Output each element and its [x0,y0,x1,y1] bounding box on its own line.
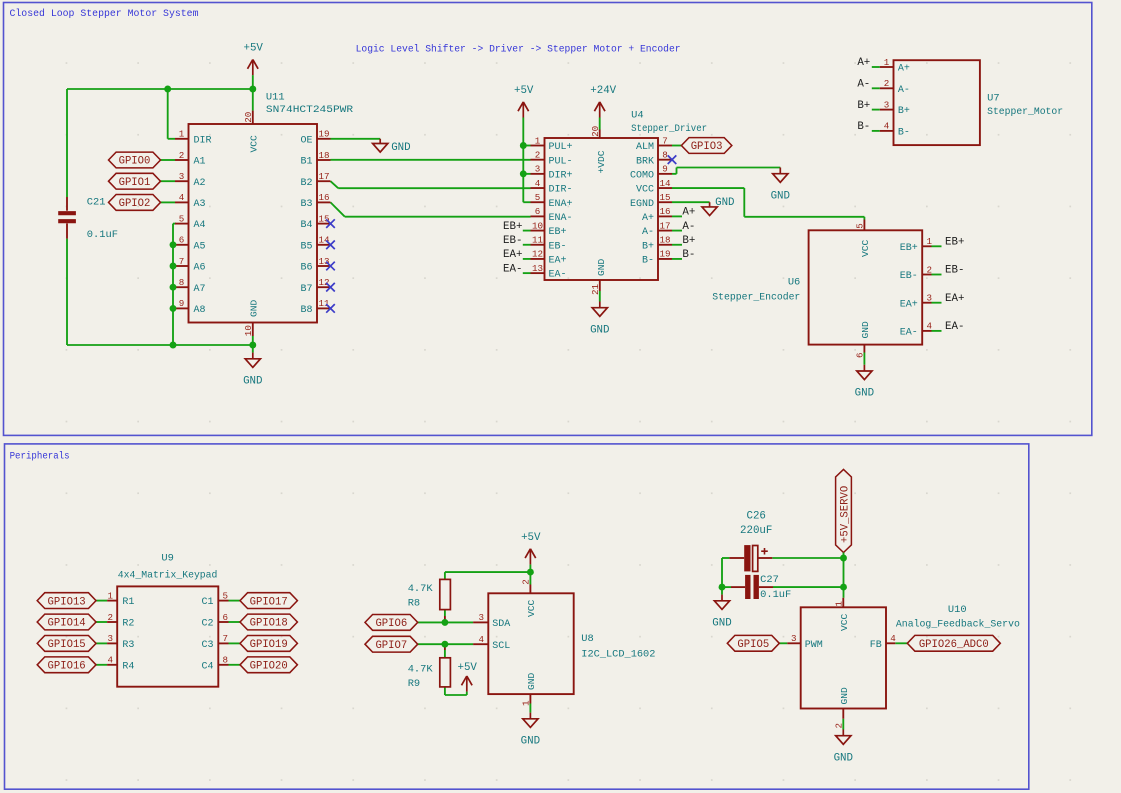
svg-text:GPIO5: GPIO5 [737,639,769,651]
svg-text:18: 18 [318,150,329,161]
svg-text:B-: B- [898,128,910,139]
svg-text:EB+: EB+ [945,237,964,249]
svg-text:A8: A8 [194,305,206,316]
svg-text:A5: A5 [194,241,206,252]
svg-text:7: 7 [662,135,668,146]
svg-text:DIR+: DIR+ [549,170,573,181]
svg-text:U10: U10 [948,604,967,616]
svg-text:GPIO26_ADC0: GPIO26_ADC0 [919,639,989,651]
svg-text:3: 3 [179,171,185,182]
svg-text:1: 1 [884,57,890,68]
svg-text:+5V: +5V [457,662,477,674]
svg-text:16: 16 [318,192,329,203]
svg-text:GPIO14: GPIO14 [48,618,86,630]
svg-text:4: 4 [890,633,896,644]
svg-text:4.7K: 4.7K [408,583,434,595]
svg-text:0.1uF: 0.1uF [760,589,791,601]
svg-text:SCL: SCL [492,641,510,652]
svg-text:GPIO2: GPIO2 [119,198,151,210]
svg-text:20: 20 [243,112,254,123]
svg-text:BRK: BRK [636,156,654,167]
svg-text:GND: GND [712,617,731,629]
svg-text:ENA-: ENA- [549,213,573,224]
svg-text:GND: GND [590,324,609,336]
svg-text:12: 12 [318,277,329,288]
svg-text:R1: R1 [122,597,134,608]
svg-text:GND: GND [771,190,790,202]
svg-text:5: 5 [855,223,866,229]
svg-text:13: 13 [532,263,543,274]
svg-text:EA+: EA+ [900,299,918,310]
svg-text:20: 20 [590,126,601,137]
svg-text:16: 16 [659,206,670,217]
svg-text:3: 3 [791,633,797,644]
svg-text:EA+: EA+ [945,293,964,305]
svg-text:14: 14 [659,178,671,189]
svg-text:GND: GND [526,672,537,690]
svg-text:EB+: EB+ [900,243,918,254]
svg-text:21: 21 [590,283,601,295]
svg-text:B+: B+ [642,241,654,252]
svg-text:C2: C2 [201,619,213,630]
svg-text:DIR: DIR [194,135,212,146]
svg-text:COMO: COMO [630,170,654,181]
svg-text:+VDC: +VDC [596,150,607,173]
svg-text:2: 2 [834,723,845,729]
svg-text:EA-: EA- [945,321,964,333]
svg-text:3: 3 [535,164,541,175]
svg-text:5: 5 [179,213,185,224]
svg-text:1: 1 [535,135,541,146]
svg-text:GPIO13: GPIO13 [48,596,86,608]
svg-text:C3: C3 [201,640,213,651]
svg-text:GND: GND [249,299,260,317]
svg-text:8: 8 [179,277,185,288]
svg-text:U4: U4 [631,110,643,122]
svg-text:1: 1 [521,700,532,706]
svg-text:19: 19 [318,129,329,140]
svg-text:14: 14 [318,235,330,246]
svg-text:B1: B1 [300,157,312,168]
svg-text:U7: U7 [987,93,999,105]
svg-text:A+: A+ [857,57,870,69]
svg-text:7: 7 [223,633,229,644]
svg-text:4.7K: 4.7K [408,663,434,675]
svg-text:C1: C1 [201,597,213,608]
svg-text:VCC: VCC [526,599,537,617]
svg-text:3: 3 [884,99,890,110]
svg-text:Analog_Feedback_Servo: Analog_Feedback_Servo [896,619,1020,631]
svg-text:A4: A4 [194,220,206,231]
svg-text:GPIO16: GPIO16 [48,661,86,673]
svg-text:Closed Loop Stepper Motor Syst: Closed Loop Stepper Motor System [10,8,199,19]
svg-text:U6: U6 [788,277,800,289]
svg-text:A1: A1 [194,157,206,168]
svg-text:A3: A3 [194,199,206,210]
svg-text:GPIO3: GPIO3 [691,141,723,153]
svg-text:17: 17 [659,220,670,231]
svg-text:Stepper_Encoder: Stepper_Encoder [712,292,800,304]
svg-text:GND: GND [521,735,540,747]
svg-text:2: 2 [535,149,541,160]
svg-text:R4: R4 [122,661,134,672]
svg-text:Stepper_Driver: Stepper_Driver [631,123,707,135]
svg-text:ENA+: ENA+ [549,199,573,210]
svg-text:B3: B3 [300,199,312,210]
svg-text:4: 4 [926,321,932,332]
svg-text:8: 8 [223,655,229,666]
svg-text:EA-: EA- [549,270,567,281]
svg-text:19: 19 [659,249,670,260]
svg-text:C26: C26 [746,511,765,523]
svg-text:1: 1 [834,601,845,607]
svg-text:GPIO18: GPIO18 [250,618,288,630]
svg-text:A+: A+ [898,64,910,75]
svg-text:15: 15 [659,192,670,203]
svg-text:EA+: EA+ [503,249,522,261]
svg-text:FB: FB [870,640,882,651]
svg-text:R3: R3 [122,640,134,651]
svg-text:3: 3 [479,612,485,623]
svg-text:3: 3 [107,633,113,644]
svg-text:EA-: EA- [900,328,918,339]
svg-text:10: 10 [532,220,543,231]
svg-text:GPIO17: GPIO17 [250,596,288,608]
svg-text:EA-: EA- [503,263,522,275]
svg-text:+5V: +5V [243,43,263,55]
svg-text:Logic Level Shifter -> Driver: Logic Level Shifter -> Driver -> Stepper… [356,44,681,55]
svg-text:DIR-: DIR- [549,185,573,196]
svg-text:A-: A- [898,85,910,96]
svg-text:1: 1 [179,129,185,140]
svg-text:GPIO7: GPIO7 [375,640,407,652]
svg-text:R2: R2 [122,619,134,630]
svg-text:U9: U9 [161,553,173,565]
svg-text:B4: B4 [300,220,312,231]
svg-text:B+: B+ [857,100,870,112]
svg-text:B-: B- [682,249,695,261]
svg-text:A+: A+ [642,213,654,224]
svg-text:+5V: +5V [521,532,541,544]
svg-text:2: 2 [179,150,185,161]
svg-text:+5V_SERVO: +5V_SERVO [839,486,851,543]
svg-text:A7: A7 [194,284,206,295]
svg-text:EB-: EB- [945,265,964,277]
svg-text:4: 4 [107,655,113,666]
svg-text:15: 15 [318,213,329,224]
svg-text:GPIO15: GPIO15 [48,639,86,651]
svg-text:2: 2 [884,78,890,89]
svg-text:3: 3 [926,293,932,304]
svg-text:4x4_Matrix_Keypad: 4x4_Matrix_Keypad [118,569,218,581]
svg-text:11: 11 [532,235,544,246]
svg-text:SDA: SDA [492,619,510,630]
svg-text:2: 2 [521,579,532,585]
svg-text:GPIO20: GPIO20 [250,661,288,673]
svg-text:OE: OE [300,135,312,146]
svg-text:4: 4 [479,634,485,645]
svg-text:GND: GND [860,321,871,339]
svg-text:1: 1 [926,236,932,247]
svg-text:SN74HCT245PWR: SN74HCT245PWR [266,104,353,116]
svg-text:PWM: PWM [805,640,823,651]
svg-text:GND: GND [596,258,607,276]
svg-text:A6: A6 [194,263,206,274]
svg-text:6: 6 [223,612,229,623]
svg-text:C4: C4 [201,661,213,672]
svg-text:GND: GND [834,752,853,764]
svg-text:B-: B- [857,121,870,133]
svg-text:9: 9 [662,164,668,175]
svg-text:R8: R8 [408,598,420,610]
svg-text:4: 4 [535,178,541,189]
svg-text:13: 13 [318,256,329,267]
svg-text:6: 6 [535,206,541,217]
svg-text:B7: B7 [300,284,312,295]
svg-text:GPIO0: GPIO0 [119,156,151,168]
svg-text:0.1uF: 0.1uF [87,229,118,241]
svg-text:Stepper_Motor: Stepper_Motor [987,106,1063,118]
svg-text:VCC: VCC [636,185,654,196]
svg-text:11: 11 [318,298,330,309]
svg-text:Peripherals: Peripherals [10,450,70,461]
svg-text:12: 12 [532,249,543,260]
svg-text:EB+: EB+ [549,227,567,238]
svg-text:GND: GND [715,197,734,209]
svg-text:EB-: EB- [503,235,522,247]
svg-text:U8: U8 [581,633,593,645]
svg-text:+5V: +5V [514,85,534,97]
svg-text:A-: A- [857,79,870,91]
svg-text:5: 5 [223,590,229,601]
svg-text:4: 4 [884,121,890,132]
svg-text:10: 10 [243,325,254,336]
svg-text:VCC: VCC [839,613,850,631]
svg-text:B5: B5 [300,241,312,252]
svg-text:R9: R9 [408,678,420,690]
svg-text:C21: C21 [87,197,106,209]
svg-text:PUL+: PUL+ [549,142,573,153]
svg-text:B6: B6 [300,263,312,274]
svg-text:U11: U11 [266,92,285,104]
svg-text:A-: A- [682,221,695,233]
svg-text:GND: GND [839,687,850,705]
svg-text:A+: A+ [682,207,695,219]
svg-text:2: 2 [926,264,932,275]
svg-text:5: 5 [535,192,541,203]
svg-text:GND: GND [391,142,410,154]
svg-text:6: 6 [179,235,185,246]
svg-text:7: 7 [179,256,185,267]
svg-text:18: 18 [659,235,670,246]
svg-text:8: 8 [662,149,668,160]
svg-text:A-: A- [642,227,654,238]
svg-text:EGND: EGND [630,199,654,210]
svg-text:17: 17 [318,171,329,182]
svg-text:PUL-: PUL- [549,156,573,167]
svg-text:EB-: EB- [900,271,918,282]
svg-text:EB+: EB+ [503,221,522,233]
svg-text:4: 4 [179,192,185,203]
svg-text:A2: A2 [194,178,206,189]
svg-text:VCC: VCC [249,135,260,153]
svg-text:220uF: 220uF [740,525,772,537]
svg-text:GPIO6: GPIO6 [375,618,407,630]
svg-text:GPIO1: GPIO1 [119,177,151,189]
svg-text:GPIO19: GPIO19 [250,639,288,651]
svg-text:B8: B8 [300,305,312,316]
svg-text:B+: B+ [682,235,695,247]
svg-text:I2C_LCD_1602: I2C_LCD_1602 [581,648,655,660]
svg-text:+24V: +24V [590,85,616,97]
svg-text:6: 6 [855,352,866,358]
svg-text:B-: B- [642,256,654,267]
svg-text:VCC: VCC [860,239,871,257]
svg-text:1: 1 [107,590,113,601]
svg-text:GND: GND [855,388,874,400]
svg-text:B2: B2 [300,178,312,189]
svg-text:EA+: EA+ [549,256,567,267]
svg-text:C27: C27 [760,574,779,586]
svg-text:GND: GND [243,375,262,387]
svg-text:EB-: EB- [549,241,567,252]
svg-text:ALM: ALM [636,142,654,153]
svg-text:9: 9 [179,298,185,309]
svg-text:2: 2 [107,612,113,623]
svg-text:B+: B+ [898,106,910,117]
